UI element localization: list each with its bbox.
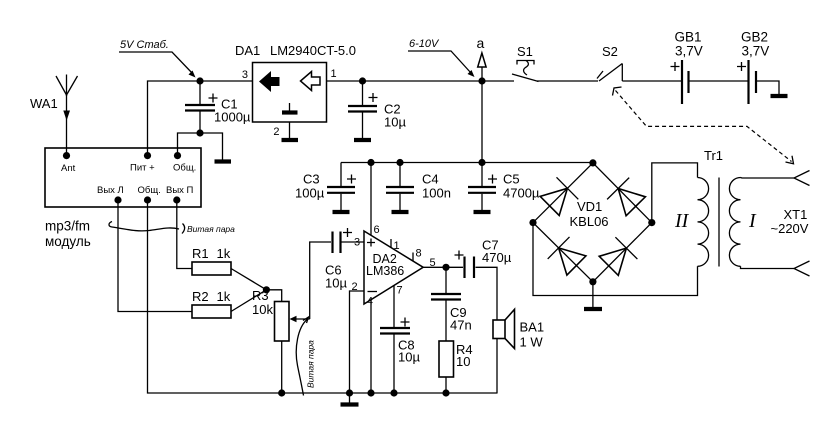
wire C1 bottom to Obsh pin xyxy=(178,133,201,156)
svg-text:R3: R3 xyxy=(252,288,269,303)
node bridge left xyxy=(529,219,536,226)
ground near module xyxy=(215,159,232,163)
svg-text:2: 2 xyxy=(273,126,279,138)
capacitor C1 xyxy=(185,81,251,133)
supply bus wire xyxy=(341,162,593,164)
wire C7 to speaker xyxy=(476,267,498,320)
svg-text:3: 3 xyxy=(354,237,360,249)
potentiometer R3 xyxy=(252,288,310,341)
svg-text:1: 1 xyxy=(394,240,400,252)
svg-text:XT1: XT1 xyxy=(784,207,808,222)
node 5V xyxy=(196,77,203,84)
svg-text:3: 3 xyxy=(242,69,248,81)
wire C1 bottom to ground xyxy=(200,133,223,160)
module box mp3/fm xyxy=(45,148,201,207)
twisted pair annotation top xyxy=(109,222,235,235)
diode VD1 top-right xyxy=(607,178,645,216)
node C2 xyxy=(359,77,366,84)
svg-text:470µ: 470µ xyxy=(482,250,512,265)
svg-text:100n: 100n xyxy=(422,186,451,201)
svg-text:4: 4 xyxy=(367,296,373,308)
svg-text:2: 2 xyxy=(352,281,358,293)
node bus C4 xyxy=(396,159,403,166)
wire node a to S1 xyxy=(482,80,514,82)
bridge rectifier VD1 xyxy=(533,163,652,282)
svg-text:Вых П: Вых П xyxy=(166,185,194,196)
wire 5V node to DA1 pin3 xyxy=(200,80,253,82)
svg-text:10: 10 xyxy=(456,354,470,369)
pin Obsh bottom xyxy=(138,185,161,204)
winding II xyxy=(674,178,709,267)
wire winding II bottom to bridge left xyxy=(533,223,698,296)
pin 7 wire DA2 xyxy=(394,285,403,328)
svg-text:KBL06: KBL06 xyxy=(570,214,609,229)
wire R3 bottom to bus xyxy=(281,341,283,393)
svg-text:Общ.: Общ. xyxy=(173,163,196,174)
wire node a down to bus xyxy=(481,81,483,163)
pin 2 wire DA2 xyxy=(350,281,365,393)
wire R1 to node xyxy=(231,269,266,290)
node bus pin4 xyxy=(367,389,374,396)
svg-text:I: I xyxy=(748,210,757,232)
switch S2 xyxy=(597,44,622,81)
svg-text:R1: R1 xyxy=(192,246,209,261)
voltage regulator DA1 xyxy=(235,43,356,122)
wire bridge right to winding II top xyxy=(652,163,698,223)
node a xyxy=(477,35,487,85)
pin 5 wire DA2 xyxy=(423,257,446,269)
svg-text:Общ.: Общ. xyxy=(138,185,161,196)
resistor R2 xyxy=(192,289,231,318)
svg-text:Ant: Ant xyxy=(61,163,76,174)
svg-text:C5: C5 xyxy=(503,172,520,187)
capacitor C2 xyxy=(348,81,406,138)
node R3 ground xyxy=(278,389,285,396)
label 6-10V callout xyxy=(408,38,475,77)
svg-text:3,7V: 3,7V xyxy=(675,44,703,59)
node bridge right xyxy=(648,219,655,226)
node bridge bottom xyxy=(589,278,596,285)
ground main bus xyxy=(341,393,359,405)
svg-text:1 W: 1 W xyxy=(520,335,544,350)
svg-text:8: 8 xyxy=(416,248,422,260)
ground C4 xyxy=(392,210,409,214)
wire R3 wiper to C6 xyxy=(310,242,331,319)
ground bus wire xyxy=(282,392,497,394)
antenna arrowhead xyxy=(63,111,70,121)
battery GB2 xyxy=(737,30,769,105)
svg-text:Вых Л: Вых Л xyxy=(97,185,124,196)
svg-text:модуль: модуль xyxy=(45,234,91,249)
wire R4 to bus xyxy=(445,377,447,393)
diode VD1 bottom-right xyxy=(599,237,637,275)
wire S2 to GB1 xyxy=(622,80,682,82)
svg-text:Витая пара: Витая пара xyxy=(306,340,316,388)
wire Pit+ to 5V rail xyxy=(148,81,201,156)
switch S1 xyxy=(512,44,539,82)
pin Pit+ xyxy=(130,152,155,174)
svg-text:6-10V: 6-10V xyxy=(409,38,440,50)
svg-text:Витая пара: Витая пара xyxy=(187,224,235,234)
svg-text:1000µ: 1000µ xyxy=(214,110,251,125)
capacitor C3 xyxy=(295,163,356,211)
ground GB2 xyxy=(771,94,788,98)
wire C6 to pin3 xyxy=(342,241,365,243)
capacitor C6 xyxy=(325,228,352,291)
pin Vyh L xyxy=(97,185,124,204)
pin Ant xyxy=(61,152,76,174)
svg-text:6: 6 xyxy=(374,224,380,236)
node bus pin2 xyxy=(346,389,353,396)
op-amp DA2 xyxy=(364,231,423,304)
svg-text:10k: 10k xyxy=(252,302,273,317)
svg-text:1: 1 xyxy=(331,68,337,80)
wire Vyh L to R2 xyxy=(118,200,192,312)
svg-text:LM386: LM386 xyxy=(366,264,404,278)
capacitor C4 xyxy=(386,163,451,211)
ground C5 xyxy=(474,210,491,214)
svg-text:100µ: 100µ xyxy=(295,186,325,201)
svg-text:a: a xyxy=(477,35,485,51)
antenna WA1 xyxy=(30,75,78,112)
wire R2 to node xyxy=(231,290,266,312)
ground C3 xyxy=(333,210,350,214)
diode VD1 bottom-left xyxy=(548,237,586,275)
winding I xyxy=(729,178,757,267)
svg-text:Tr1: Tr1 xyxy=(704,148,723,163)
node bridge top xyxy=(589,159,596,166)
ground C2 xyxy=(354,138,371,142)
svg-text:BA1: BA1 xyxy=(520,320,545,335)
node bus C5 xyxy=(478,159,485,166)
capacitor C7 xyxy=(446,238,512,279)
svg-text:WA1: WA1 xyxy=(30,96,58,111)
svg-text:5: 5 xyxy=(430,257,436,269)
svg-text:10µ: 10µ xyxy=(384,115,406,130)
module label xyxy=(45,219,91,250)
capacitor C8 xyxy=(380,318,420,394)
node bus pin6 xyxy=(367,159,374,166)
resistor R1 xyxy=(192,246,231,275)
svg-text:S1: S1 xyxy=(517,44,533,59)
svg-text:4700µ: 4700µ xyxy=(503,186,540,201)
capacitor C5 xyxy=(468,163,540,211)
wire antenna to Ant pin xyxy=(66,95,68,156)
pin Vyh P xyxy=(166,185,194,204)
ground DA1 pin2 xyxy=(282,138,299,142)
wire GB2 to ground xyxy=(756,81,779,94)
wire Vyh P to R1 xyxy=(177,200,192,269)
battery GB1 xyxy=(671,30,703,105)
svg-text:1k: 1k xyxy=(217,246,231,261)
node C1 bottom xyxy=(196,129,203,136)
label 5V Stab callout xyxy=(119,39,196,78)
node R1 R2 junction xyxy=(263,286,270,293)
pin 2 DA1 wire xyxy=(273,122,289,138)
node bus C8 xyxy=(390,389,397,396)
svg-text:1k: 1k xyxy=(217,289,231,304)
pin 1 stub DA2 xyxy=(391,239,400,252)
svg-text:DA1: DA1 xyxy=(235,43,260,58)
node output xyxy=(442,264,449,271)
svg-text:R2: R2 xyxy=(192,289,209,304)
ground bridge xyxy=(584,307,602,311)
svg-text:5V Стаб.: 5V Стаб. xyxy=(120,39,169,51)
wire speaker to bus xyxy=(496,339,498,394)
svg-text:7: 7 xyxy=(397,285,403,297)
diode VD1 top-left xyxy=(540,177,578,215)
pin 8 stub DA2 xyxy=(413,248,422,262)
wire bridge bottom to ground xyxy=(592,282,594,307)
pin Obsh top xyxy=(173,152,196,174)
svg-text:C4: C4 xyxy=(422,172,439,187)
svg-text:10µ: 10µ xyxy=(398,350,420,365)
wire winding I bottom to XT1 xyxy=(741,266,795,268)
wire Obsh to ground bus xyxy=(148,200,282,393)
svg-text:3,7V: 3,7V xyxy=(742,44,770,59)
svg-text:~220V: ~220V xyxy=(771,221,809,236)
twisted pair annotation bottom xyxy=(296,317,315,396)
svg-text:II: II xyxy=(674,210,690,232)
wire GB1 to GB2 xyxy=(689,80,749,82)
svg-text:mp3/fm: mp3/fm xyxy=(45,219,90,234)
wire DA1 pin1 to node a xyxy=(327,80,483,82)
svg-text:LM2940CT-5.0: LM2940CT-5.0 xyxy=(270,43,356,58)
svg-text:GB2: GB2 xyxy=(741,30,768,45)
svg-text:GB1: GB1 xyxy=(675,30,702,45)
svg-text:47n: 47n xyxy=(450,318,472,333)
wire S1 to S2 xyxy=(537,80,598,82)
dashed coupling arrow xyxy=(613,87,794,164)
label XT1 xyxy=(771,207,809,236)
pin 4 wire DA2 xyxy=(367,296,373,394)
wire winding I top to XT1 xyxy=(741,177,795,180)
transformer core xyxy=(718,178,720,267)
capacitor C9 xyxy=(431,267,472,341)
resistor R4 xyxy=(439,341,473,377)
svg-text:S2: S2 xyxy=(602,44,618,59)
svg-text:10µ: 10µ xyxy=(325,276,347,291)
connector XT1 top fork xyxy=(794,171,810,186)
speaker BA1 xyxy=(493,309,544,349)
pin 6 wire DA2 xyxy=(371,163,380,237)
svg-text:VD1: VD1 xyxy=(577,199,602,214)
connector XT1 bottom fork xyxy=(794,261,810,276)
node bus R4 xyxy=(442,389,449,396)
svg-text:C3: C3 xyxy=(303,172,320,187)
wire node to R3 top xyxy=(266,290,281,302)
svg-text:Пит +: Пит + xyxy=(130,163,155,174)
